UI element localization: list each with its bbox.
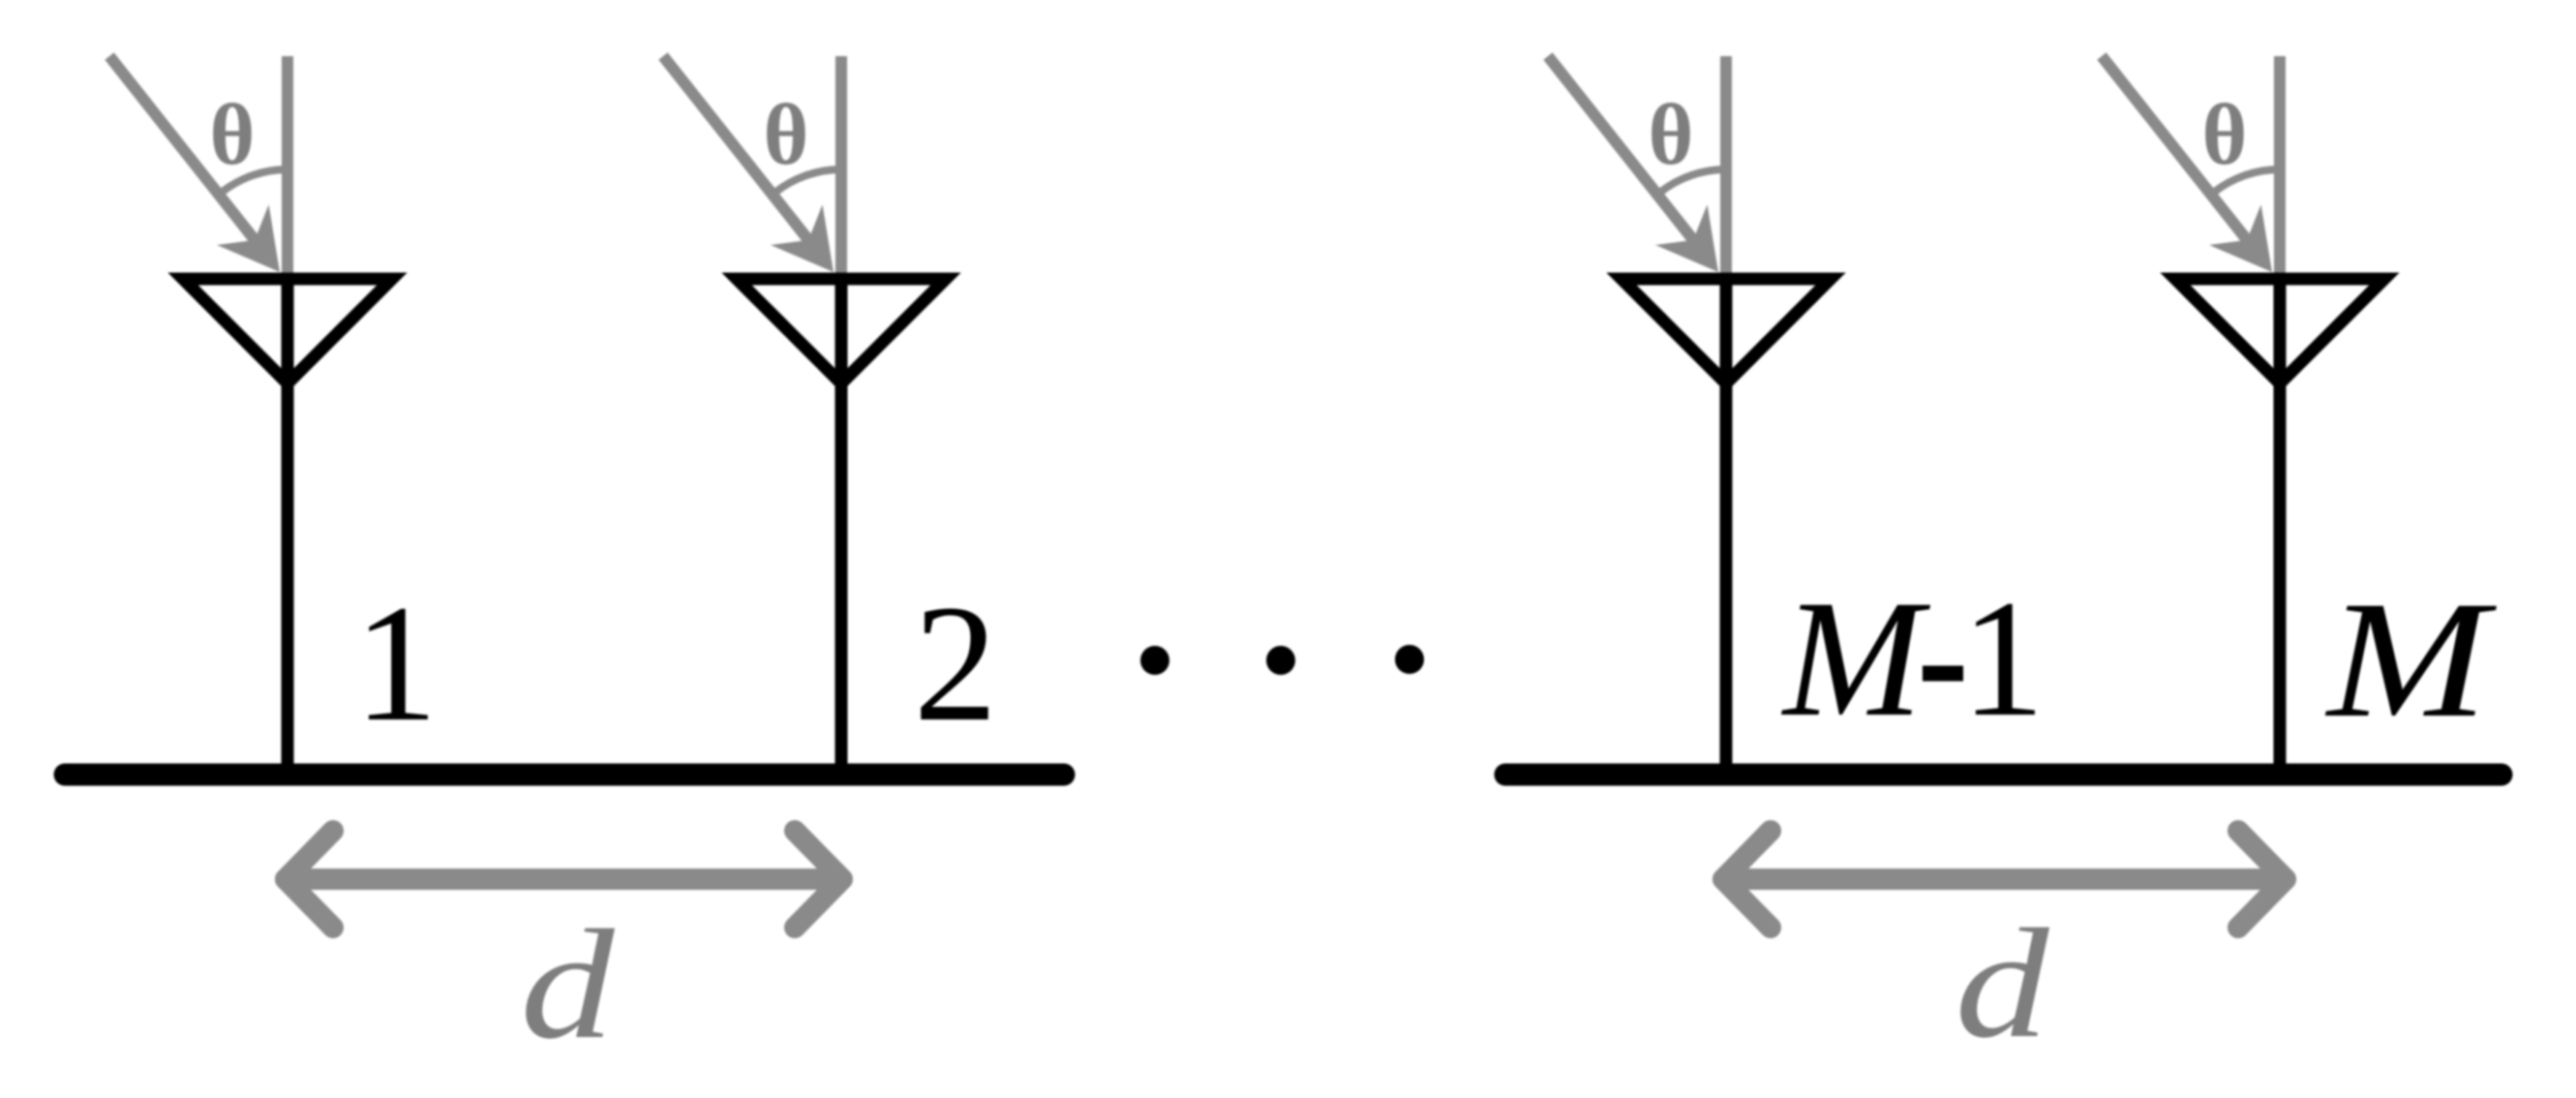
svg-text:d: d bbox=[1955, 897, 2049, 1070]
incident wave arrowhead (antenna 2) bbox=[771, 204, 833, 272]
antenna pole (antenna M-1) bbox=[1720, 281, 1733, 772]
angle arc theta (antenna M) bbox=[2214, 169, 2280, 192]
svg-text:θ: θ bbox=[1649, 87, 1694, 183]
antenna element M group bbox=[2102, 56, 2384, 772]
antenna pole (antenna 2) bbox=[835, 281, 848, 772]
incident wave arrowhead (antenna M-1) bbox=[1655, 204, 1718, 272]
antenna triangle (antenna 1) bbox=[183, 279, 392, 383]
vertical reference line (antenna M) bbox=[2274, 56, 2286, 281]
angle arc theta (antenna 1) bbox=[222, 169, 288, 192]
svg-text:1: 1 bbox=[354, 571, 439, 756]
right chevron (right d) bbox=[2238, 831, 2286, 928]
left chevron (right d) bbox=[1723, 831, 1771, 928]
svg-text:θ: θ bbox=[210, 87, 256, 183]
ellipsis dot 2 bbox=[1266, 646, 1295, 675]
ground baseline left segment bbox=[65, 764, 1064, 786]
right chevron (left d) bbox=[795, 831, 842, 928]
hyphen of M-1 bbox=[1923, 666, 1963, 682]
angle arc theta (antenna M-1) bbox=[1660, 169, 1726, 192]
vertical reference line (antenna 1) bbox=[282, 56, 293, 281]
ground baseline right segment bbox=[1505, 764, 2501, 786]
antenna triangle (antenna M) bbox=[2175, 279, 2384, 383]
arrow shaft (right d) bbox=[1723, 869, 2286, 890]
angle arc theta (antenna 2) bbox=[775, 169, 841, 192]
antenna element 1 group bbox=[109, 56, 392, 772]
incident wave arrow shaft (antenna 1) bbox=[109, 56, 259, 246]
incident wave arrow shaft (antenna M-1) bbox=[1548, 56, 1698, 246]
svg-text:d: d bbox=[520, 898, 615, 1071]
spacing arrow d (left) bbox=[286, 831, 842, 928]
svg-text:2: 2 bbox=[914, 571, 998, 756]
incident wave arrowhead (antenna M) bbox=[2209, 204, 2272, 272]
antenna element M-1 group bbox=[1548, 56, 1831, 772]
vertical reference line (antenna 2) bbox=[835, 56, 847, 281]
ellipsis dot 1 bbox=[1140, 646, 1169, 675]
incident wave arrow shaft (antenna 2) bbox=[663, 56, 813, 246]
svg-text:θ: θ bbox=[764, 87, 809, 183]
incident wave arrow shaft (antenna M) bbox=[2102, 56, 2252, 246]
antenna pole (antenna 1) bbox=[282, 281, 294, 772]
incident wave arrowhead (antenna 1) bbox=[217, 204, 280, 272]
antenna element 2 group bbox=[663, 56, 946, 772]
vertical reference line (antenna M-1) bbox=[1720, 56, 1732, 281]
svg-text:θ: θ bbox=[2202, 87, 2248, 183]
arrow shaft (left d) bbox=[286, 869, 842, 890]
svg-text:M: M bbox=[1780, 566, 1931, 751]
left chevron (left d) bbox=[286, 831, 333, 928]
antenna pole (antenna M) bbox=[2274, 281, 2287, 772]
svg-text:M: M bbox=[2324, 567, 2497, 752]
spacing arrow d (right) bbox=[1723, 831, 2286, 928]
svg-text:1: 1 bbox=[1961, 566, 2046, 751]
antenna triangle (antenna M-1) bbox=[1621, 279, 1831, 383]
antenna triangle (antenna 2) bbox=[737, 279, 946, 383]
ellipsis dot 3 bbox=[1395, 645, 1424, 674]
